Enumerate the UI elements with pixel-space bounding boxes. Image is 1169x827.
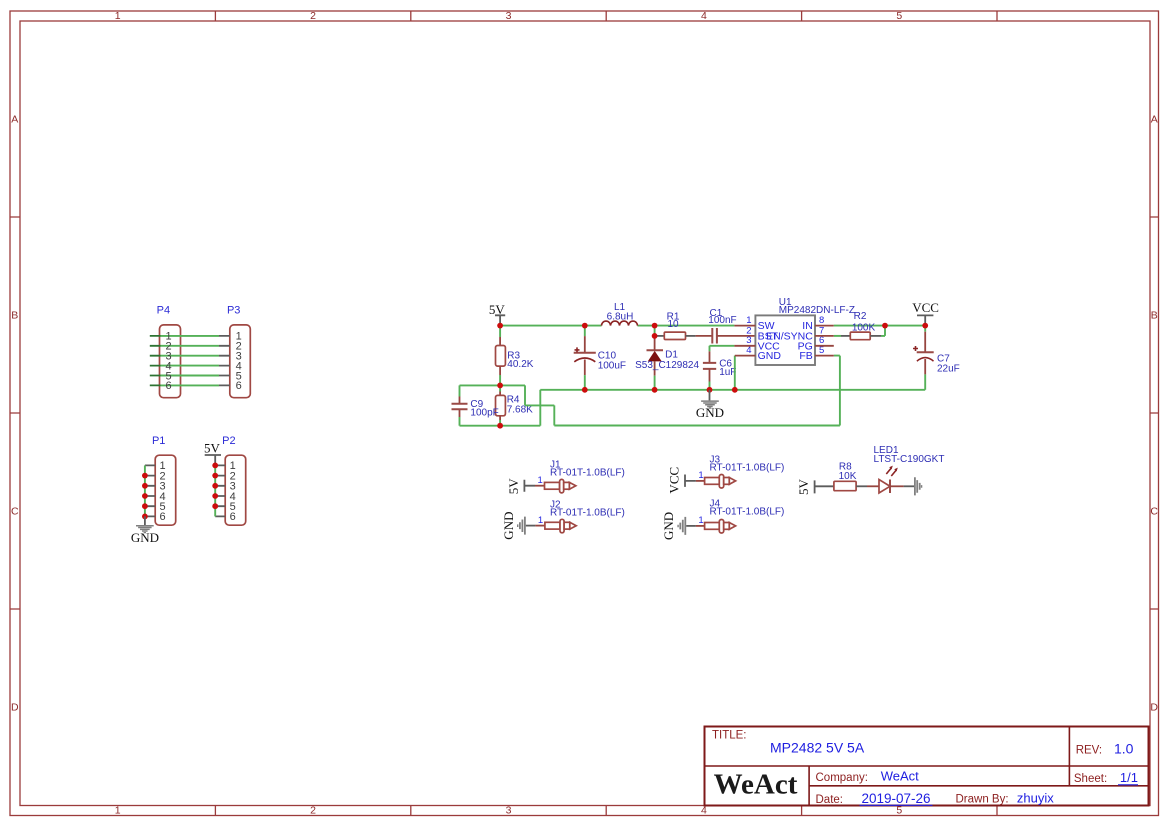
svg-text:6: 6 (165, 380, 171, 392)
frame column ticks bottom (215, 806, 997, 816)
svg-text:GND: GND (661, 512, 676, 540)
wire FB path (500, 356, 840, 426)
node C10 top (582, 323, 588, 329)
svg-text:D: D (11, 702, 19, 714)
svg-text:1/1: 1/1 (1120, 770, 1138, 785)
capacitor C1 (696, 308, 756, 344)
connector P1 pin stubs (145, 465, 155, 516)
svg-text:WeAct: WeAct (714, 769, 798, 801)
svg-text:2: 2 (310, 10, 316, 22)
title block dividers (705, 727, 1149, 806)
node FB divider junction (497, 383, 503, 389)
svg-text:C: C (1150, 506, 1158, 518)
svg-text:22uF: 22uF (937, 364, 960, 375)
svg-text:3: 3 (506, 805, 512, 817)
node 5V junction (497, 323, 503, 329)
node SW junction bottom (652, 333, 658, 339)
node R2 top (882, 323, 888, 329)
svg-text:5V: 5V (506, 478, 521, 495)
wire 5V rail right of L1 (638, 325, 735, 327)
svg-text:6: 6 (159, 511, 165, 523)
wire P1 bus (144, 465, 146, 516)
svg-text:P3: P3 (227, 305, 240, 317)
title block outline (705, 727, 1149, 806)
resistor R3 (496, 326, 534, 386)
resistor R1 (657, 311, 696, 339)
svg-text:100K: 100K (852, 323, 876, 334)
wire C9 bottom (460, 425, 541, 427)
svg-text:RT-01T-1.0B(LF): RT-01T-1.0B(LF) (710, 462, 785, 473)
junction dots P2 (212, 463, 218, 510)
power flag 5V at P2 (204, 441, 221, 466)
svg-text:1: 1 (698, 515, 703, 526)
frame row labels right (1150, 114, 1158, 714)
svg-text:5V: 5V (204, 441, 221, 456)
svg-text:2019-07-26: 2019-07-26 (862, 791, 931, 806)
inductor L1 (602, 302, 638, 326)
svg-text:1uF: 1uF (719, 367, 736, 378)
svg-text:100uF: 100uF (598, 360, 626, 371)
connector P2 (222, 435, 246, 525)
LED LED1 (867, 445, 944, 493)
connector P3 box (227, 305, 250, 398)
capacitor C6 (703, 346, 737, 390)
svg-text:D1: D1 (665, 350, 678, 361)
svg-text:RT-01T-1.0B(LF): RT-01T-1.0B(LF) (550, 468, 625, 479)
capacitor C9 (452, 385, 499, 425)
svg-text:1: 1 (698, 470, 703, 481)
node C10 bottom (582, 387, 588, 393)
svg-text:1: 1 (115, 10, 121, 22)
pin 7 stub U1 (815, 335, 834, 337)
svg-text:LTST-C190GKT: LTST-C190GKT (874, 454, 945, 465)
resistor R8 (834, 462, 867, 491)
power flag VCC (912, 300, 939, 325)
ground symbol main (696, 390, 724, 420)
svg-text:Sheet:: Sheet: (1074, 773, 1107, 785)
resistor R4 (496, 385, 534, 425)
ground symbol J4 (661, 512, 696, 540)
svg-text:6: 6 (236, 380, 242, 392)
node SW junction top (652, 323, 658, 329)
svg-text:100pF: 100pF (470, 407, 498, 418)
node D1 bottom (652, 387, 658, 393)
connector J1 (535, 460, 625, 493)
svg-text:5V: 5V (796, 478, 811, 495)
svg-text:FB: FB (799, 350, 812, 362)
ground symbol LED1 (904, 477, 923, 495)
power flag 5V main (489, 302, 506, 326)
svg-text:40.2K: 40.2K (507, 359, 533, 370)
frame row ticks left (10, 217, 20, 609)
svg-text:P2: P2 (222, 435, 235, 447)
svg-text:TITLE:: TITLE: (712, 730, 747, 742)
power flag 5V at J1 (506, 478, 535, 495)
svg-text:zhuyix: zhuyix (1017, 791, 1054, 806)
pin 4 stub U1 (735, 355, 756, 357)
svg-text:100nF: 100nF (708, 315, 736, 326)
svg-text:B: B (11, 310, 18, 322)
svg-text:GND: GND (131, 530, 159, 545)
connector P4 pin stubs (150, 336, 161, 386)
connector P4 box (157, 305, 181, 398)
svg-text:D: D (1150, 702, 1158, 714)
ground symbol P1 (131, 516, 159, 545)
frame column ticks top (215, 11, 997, 21)
wire GND rail riser (539, 390, 541, 426)
pin 1 stub U1 (734, 325, 755, 327)
svg-text:4: 4 (701, 10, 707, 22)
svg-text:10: 10 (667, 319, 679, 330)
diode D1 (635, 336, 699, 390)
frame row labels left (11, 114, 19, 714)
Sheet underline (1118, 784, 1138, 786)
wire C9 top (460, 384, 501, 386)
svg-text:REV:: REV: (1076, 745, 1102, 757)
svg-text:A: A (1151, 114, 1158, 126)
pin 8 stub U1 (815, 325, 834, 327)
svg-text:1: 1 (538, 475, 543, 486)
wire GND rail (540, 389, 925, 391)
connector P2 pin stubs (215, 465, 225, 516)
svg-text:1.0: 1.0 (1114, 741, 1134, 757)
svg-text:6.8uH: 6.8uH (607, 312, 634, 323)
svg-text:VCC: VCC (667, 467, 682, 494)
svg-text:P1: P1 (152, 435, 165, 447)
node pin4 drop bottom (732, 387, 738, 393)
svg-text:MP2482 5V 5A: MP2482 5V 5A (770, 740, 865, 756)
wire IN to VCC (834, 325, 925, 327)
wire P2 bus (214, 465, 216, 516)
svg-text:R2: R2 (854, 311, 867, 322)
svg-text:2: 2 (310, 805, 316, 817)
svg-text:GND: GND (501, 512, 516, 540)
ground symbol J2 (501, 512, 535, 540)
connector P4 pin numbers (165, 331, 171, 393)
svg-text:3: 3 (506, 10, 512, 22)
svg-text:5: 5 (896, 10, 902, 22)
resistor R2 (834, 311, 885, 340)
connector J4 (696, 498, 784, 533)
capacitor C10 (574, 326, 626, 390)
svg-text:A: A (11, 114, 18, 126)
pin 3 stub U1 (734, 345, 755, 347)
wire GND pin4 drop (734, 356, 736, 390)
connector P3 pin stubs (219, 336, 230, 386)
svg-text:1: 1 (115, 805, 121, 817)
svg-text:1: 1 (538, 515, 543, 526)
svg-text:B: B (1151, 310, 1158, 322)
node VCC junction (922, 323, 928, 329)
Date underline (860, 804, 933, 806)
svg-text:10K: 10K (839, 471, 857, 482)
node R4 bottom junction (497, 423, 503, 429)
capacitor C7 (913, 326, 960, 390)
pin 5 stub U1 (815, 355, 834, 357)
wires P4 to P3 (161, 336, 220, 386)
frame column labels top (115, 10, 903, 22)
svg-text:WeAct: WeAct (881, 769, 919, 784)
connector J2 (535, 499, 624, 532)
svg-text:RT-01T-1.0B(LF): RT-01T-1.0B(LF) (550, 507, 625, 518)
svg-text:P4: P4 (157, 305, 170, 317)
svg-text:MP2482DN-LF-Z: MP2482DN-LF-Z (779, 305, 855, 316)
connector P3 pin numbers (236, 331, 242, 393)
connector J3 (696, 454, 784, 488)
power flag VCC at J3 (667, 467, 696, 494)
svg-text:Company:: Company: (816, 772, 868, 784)
node C6 bottom (707, 387, 713, 393)
svg-text:C: C (11, 506, 19, 518)
svg-text:VCC: VCC (912, 300, 939, 315)
svg-text:RT-01T-1.0B(LF): RT-01T-1.0B(LF) (710, 506, 785, 517)
wire 5V rail left (500, 325, 601, 327)
svg-text:GND: GND (758, 350, 782, 362)
junction dots P1 (142, 473, 148, 520)
frame row ticks right (1150, 217, 1159, 609)
op-amp U1 MP2482 (746, 297, 855, 365)
frame column labels bottom (115, 805, 903, 817)
svg-text:S53_C129824: S53_C129824 (635, 360, 699, 371)
pin 6 stub U1 (815, 345, 834, 347)
svg-text:Date:: Date: (816, 794, 844, 806)
svg-text:GND: GND (696, 405, 724, 420)
svg-text:6: 6 (230, 511, 236, 523)
power flag 5V at R8 (796, 478, 835, 495)
wire SW node drop (654, 326, 656, 336)
connector P1 (152, 435, 176, 525)
svg-text:Drawn By:: Drawn By: (956, 794, 1009, 806)
